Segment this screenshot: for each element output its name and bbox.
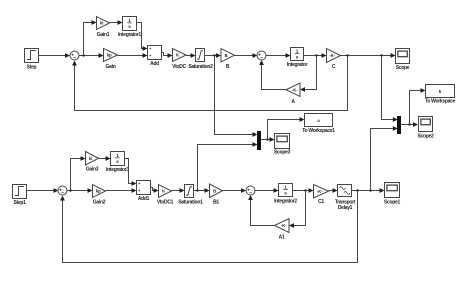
- gain VtoDC1 K: [157, 185, 174, 206]
- sum junction Sum2: [58, 186, 67, 195]
- svg-text:kp: kp: [107, 53, 112, 58]
- svg-text:kp: kp: [96, 189, 101, 194]
- svg-text:B: B: [225, 53, 228, 58]
- svg-text:A1: A1: [279, 235, 285, 241]
- wire Integrator2 to C1 with tap node: [293, 188, 314, 193]
- svg-text:To Workspace1: To Workspace1: [302, 128, 335, 134]
- svg-text:ki: ki: [100, 21, 104, 26]
- svg-text:A: A: [291, 99, 295, 105]
- wire VtoDC1 to Saturation1: [172, 188, 185, 193]
- wire Sum2 output to Gain2 with branch node: [67, 188, 93, 193]
- svg-text:Step1: Step1: [13, 200, 26, 206]
- wire Transport Delay1 to Scope1 with tap nodes: [352, 188, 385, 193]
- mux Mux2 for Scope2: [398, 117, 401, 134]
- gain A pointing left: [286, 83, 300, 105]
- svg-text:Gain3: Gain3: [86, 167, 99, 173]
- svg-text:Integrator1: Integrator1: [118, 32, 141, 38]
- integrator Integrator1: [118, 17, 141, 38]
- wire tap up to Mux1 input 2: [198, 142, 258, 190]
- svg-text:B: B: [213, 188, 216, 193]
- svg-text:Saturation2: Saturation2: [188, 64, 213, 70]
- wire Gain1 to Integrator1: [110, 20, 123, 25]
- wire Sum1 to Integrator: [266, 53, 291, 58]
- sum junction Sum3: [246, 186, 255, 195]
- integrator Integrator3: [106, 152, 129, 174]
- gain A1 pointing left: [275, 219, 290, 241]
- wire Integrator1 to Add input 1: [137, 23, 148, 51]
- scope Scope1: [384, 183, 401, 206]
- svg-text:s: s: [296, 55, 299, 60]
- step source Step: [25, 49, 39, 71]
- sum junction Sum1: [257, 51, 266, 60]
- transport delay Transport Delay1: [335, 185, 356, 212]
- svg-text:-K-: -K-: [317, 189, 323, 194]
- wire tap down to gain A: [300, 56, 317, 92]
- wire Saturation2 to B with tap node: [205, 53, 222, 58]
- saturation Saturation2: [188, 49, 213, 71]
- svg-text:Scope: Scope: [396, 65, 410, 71]
- svg-text:-K-: -K-: [329, 53, 335, 58]
- svg-text:b: b: [439, 89, 442, 94]
- wire A1 to Sum3 bottom: [248, 195, 274, 226]
- wire outer feedback loop top system: [72, 56, 347, 111]
- wire tap down to gain A1: [289, 191, 306, 228]
- gain C: [327, 49, 341, 71]
- wire B to Sum1: [235, 53, 258, 58]
- mux Mux1 for Scope3: [258, 132, 261, 150]
- svg-text:1: 1: [296, 48, 299, 53]
- wire Step to Sum: [39, 53, 71, 58]
- svg-text:C: C: [332, 64, 336, 70]
- svg-text:Add1: Add1: [138, 196, 150, 202]
- wire Gain to Add input 2: [118, 53, 148, 58]
- svg-text:Saturation1: Saturation1: [178, 200, 203, 206]
- svg-text:C1: C1: [318, 199, 324, 205]
- svg-text:VtoDC1: VtoDC1: [157, 200, 174, 206]
- scope Scope: [396, 49, 410, 71]
- svg-text:s: s: [128, 24, 131, 29]
- wire Sum3 to Integrator2: [255, 188, 279, 193]
- wire branch up to Gain3: [71, 156, 86, 190]
- wire C1 to Transport Delay1: [329, 188, 338, 193]
- sum block Add: [148, 46, 162, 68]
- wire Step1 to Sum2: [27, 188, 59, 193]
- wire Add to VtoDC: [162, 53, 173, 58]
- scope Scope2: [418, 117, 435, 140]
- step source Step1: [13, 185, 27, 206]
- svg-text:ki: ki: [89, 156, 93, 161]
- to workspace block To Workspace: [425, 85, 456, 105]
- wire branch up to Gain1: [84, 20, 97, 55]
- scope Scope3: [274, 134, 291, 156]
- sum block Add1: [137, 181, 151, 203]
- wire Saturation1 to B1 with tap node: [194, 188, 210, 193]
- svg-text:K: K: [162, 189, 165, 194]
- gain C1: [314, 185, 329, 206]
- sum junction Sum: [70, 51, 79, 60]
- wire branch up to Mux2 input 2: [371, 126, 398, 190]
- svg-text:1: 1: [116, 153, 119, 158]
- svg-text:-K-: -K-: [281, 223, 287, 228]
- svg-text:K: K: [176, 53, 179, 58]
- svg-text:To Workspace: To Workspace: [425, 98, 456, 104]
- wire C to Scope with tap nodes: [341, 53, 396, 58]
- svg-text:VtoDC: VtoDC: [172, 64, 186, 70]
- gain Gain2 kp: [93, 185, 106, 206]
- svg-text:Integrator3: Integrator3: [106, 167, 129, 173]
- svg-text:Gain2: Gain2: [93, 200, 106, 206]
- wire A to Sum1 bottom: [259, 60, 286, 90]
- gain Gain kp: [104, 49, 118, 71]
- gain Gain3 ki: [86, 152, 99, 173]
- gain B1: [210, 184, 223, 206]
- svg-text:Scope3: Scope3: [274, 149, 291, 155]
- wire branch up to To Workspace: [410, 88, 426, 124]
- wire Sum output to Gain with branch node: [79, 53, 104, 58]
- svg-text:1: 1: [128, 18, 131, 23]
- wire Mux1 output with branch node: [261, 137, 275, 142]
- svg-text:Add: Add: [150, 61, 159, 67]
- wire branch up to To Workspace1: [268, 117, 305, 139]
- svg-text:Gain: Gain: [106, 64, 116, 70]
- wire Mux2 output to Scope2 with branch node: [401, 122, 419, 127]
- integrator Integrator: [287, 48, 308, 69]
- svg-text:Scope2: Scope2: [418, 133, 435, 139]
- saturation Saturation1: [178, 185, 203, 206]
- svg-text:s: s: [284, 191, 287, 196]
- svg-text:Scope1: Scope1: [384, 200, 401, 206]
- svg-text:Delay1: Delay1: [338, 205, 353, 211]
- svg-text:Gain1: Gain1: [97, 32, 110, 38]
- integrator Integrator2: [274, 184, 297, 205]
- wire Add1 to VtoDC1: [151, 188, 159, 193]
- svg-text:-K-: -K-: [292, 87, 298, 92]
- svg-text:s: s: [116, 159, 119, 164]
- wire Gain2 to Add1 input 2: [106, 188, 137, 193]
- wire tap down to Mux1 input 1: [215, 56, 258, 137]
- svg-text:Integrator: Integrator: [287, 62, 308, 68]
- wire Integrator to C with tap node: [304, 53, 327, 58]
- wire VtoDC to Saturation2: [186, 53, 196, 58]
- svg-text:Step: Step: [27, 65, 37, 71]
- gain Gain1 ki: [97, 17, 110, 38]
- wire branch down to Mux2 input 1: [382, 56, 398, 122]
- wire B1 to Sum3: [223, 188, 247, 193]
- svg-text:B: B: [226, 64, 230, 70]
- gain B: [221, 49, 235, 71]
- svg-text:a: a: [317, 118, 320, 123]
- svg-text:Integrator2: Integrator2: [274, 199, 297, 205]
- svg-text:B1: B1: [213, 200, 219, 206]
- to workspace block To Workspace1: [302, 114, 335, 134]
- wire Integrator3 to Add1 input 1: [125, 159, 137, 186]
- wire outer feedback loop bottom system: [60, 191, 357, 263]
- svg-text:1: 1: [284, 184, 287, 189]
- gain VtoDC K: [172, 49, 186, 71]
- wire Gain3 to Integrator3: [99, 156, 111, 161]
